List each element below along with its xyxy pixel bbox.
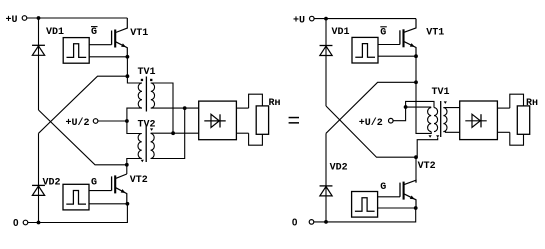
wire 0 bottom rail (left) [28, 204, 128, 223]
polarity mark secondary (right) [444, 101, 447, 104]
transformer TV1 label (right) [432, 87, 450, 98]
transformer TV1 core (left) [145, 77, 147, 112]
transistor VT1 (right) [400, 19, 444, 57]
junction VT1 emitter (right) [414, 54, 418, 58]
transformer TV1 secondary winding (left) [151, 83, 155, 108]
junction TV2 bottom / VT2 collector (left) [125, 163, 129, 167]
wire +U/2 lead (left) [98, 120, 127, 122]
wire G2 emitter lead (right) [378, 207, 416, 209]
wire +U/2 to TV2 primary top (left) [127, 121, 142, 134]
node +U/2 (right) terminal [359, 117, 393, 129]
junction +U/2 / TV1 / TV2 (left) [125, 119, 129, 123]
rectifier bridge U2 (right) [460, 101, 498, 140]
node 0 (left) terminal [13, 218, 28, 229]
wire secondary tops / rectifier lower input (left) [151, 132, 199, 134]
junction 0/VD2 (right) [324, 220, 328, 224]
wire +U/2 lead (right) [393, 107, 406, 121]
svg-text:+U/2: +U/2 [359, 117, 383, 129]
svg-text:+U: +U [293, 16, 305, 27]
node +U/2 (left) terminal [66, 117, 98, 129]
wire TV1 secondary top to TV2 secondary top (left) [151, 83, 173, 133]
junction +U/VD1 (left) [37, 16, 41, 20]
svg-text:0: 0 [13, 218, 19, 229]
transistor VT2 (left) [112, 174, 148, 204]
wire G1 gate lead (left) [89, 44, 111, 46]
svg-text:TV1: TV1 [138, 67, 156, 78]
svg-text:VT1: VT1 [426, 28, 444, 39]
wire secondary top to rectifier (right) [443, 107, 459, 109]
wire VT2 collector (right) [415, 157, 417, 182]
diode VD2 (left) [32, 178, 60, 196]
wire rectifier lower output (left) [236, 132, 248, 134]
node +U (left) terminal [6, 15, 27, 26]
diode VD1 (right) [320, 27, 350, 55]
svg-text:VD1: VD1 [332, 27, 350, 38]
svg-text:VD1: VD1 [46, 27, 64, 38]
wire rectifier lower output (right) [497, 131, 509, 133]
transformer TV1 secondary winding (right) [443, 108, 447, 132]
svg-text:+U/2: +U/2 [66, 117, 90, 129]
wire diagonal VD1 to VT2 collector node (right) [326, 106, 416, 157]
pulse generator G2 (right bottom) [352, 182, 387, 217]
svg-text:VT2: VT2 [130, 175, 148, 186]
wire VD1 branch (right) [325, 19, 327, 106]
transistor VT1 (left) [112, 18, 149, 57]
node +U (right) terminal [293, 16, 314, 27]
junction secondary tops (left) [171, 131, 175, 135]
junction secondary bottoms (left) [183, 106, 187, 110]
wire diagonal VD1 to TV2 bottom node (left) [39, 110, 127, 165]
junction +U/2 primaries (right) [404, 105, 408, 109]
svg-text:Rн: Rн [269, 98, 281, 109]
svg-text:+U: +U [6, 15, 18, 26]
wire +U/2 to primary 1 top (right) [406, 106, 432, 108]
polarity mark primary 1 (right) [429, 135, 432, 138]
wire VT1 emitter rail down (right) [416, 56, 431, 133]
wire primary 2 bottom to VT2 collector (right) [417, 138, 438, 158]
transformer TV1 primary winding (left) [138, 83, 142, 108]
wire VD1 branch (left) [38, 18, 40, 110]
wire VD2 branch (right) [325, 133, 327, 222]
resistor RH load (right) [510, 94, 538, 145]
transformer TV1 core (right) [440, 101, 442, 137]
junction diagonal/rail (right) [414, 80, 418, 84]
junction VT2 emitter (right) [414, 206, 418, 210]
wire secondary bottom to rectifier (right) [443, 131, 459, 134]
wire rectifier upper output (left) [236, 107, 248, 109]
svg-text:VT1: VT1 [130, 28, 148, 39]
wire TV2 secondary bottom to junction (left) [151, 108, 185, 158]
transformer TV1 primary winding 2 (right) [434, 108, 438, 132]
wire TV2 primary bottom lead (left) [127, 159, 142, 165]
polarity mark TV2 primary bottom (left) [141, 160, 144, 163]
polarity mark primary 2 (right) [436, 135, 439, 138]
svg-text:G: G [91, 27, 97, 38]
wire +U/2 over rail to primary 2 top (right) [406, 101, 434, 107]
pulse generator G1 (right top) [352, 27, 387, 63]
rectifier bridge U1 (left) [199, 101, 237, 140]
resistor RH load (left) [249, 94, 281, 145]
wire +U top rail (left) [27, 17, 128, 19]
wire G2 emitter lead (left) [89, 203, 127, 205]
transformer TV2 core (left) [145, 126, 147, 162]
svg-text:G: G [380, 182, 386, 193]
junction TV1 / VT2 collector (right) [414, 155, 418, 159]
wire G1 emitter lead (right) [378, 55, 416, 57]
diode VD1 (left) [32, 27, 64, 55]
wire VD2 branch (left) [38, 133, 40, 222]
junction VT2 emitter (left) [126, 202, 130, 206]
transformer TV1 label (left) [138, 67, 156, 78]
wire 0 bottom rail (right) [314, 208, 416, 222]
transistor VT2 (right) [400, 161, 436, 208]
svg-text:Rн: Rн [526, 98, 538, 109]
transformer TV2 primary winding (left) [138, 134, 142, 159]
wire G2 gate lead (left) [89, 190, 112, 192]
svg-text:G: G [380, 27, 386, 38]
diode VD2 (right) [320, 163, 348, 196]
pulse generator G1 (left top) [63, 27, 97, 64]
equivalence sign = [289, 117, 299, 124]
polarity mark TV1 primary (left) [141, 79, 143, 81]
polarity mark TV2 secondary top (left) [150, 128, 153, 131]
node 0 (right) terminal [292, 218, 314, 229]
wire rectifier upper output (right) [497, 107, 509, 109]
junction 0/VD2 (left) [37, 221, 41, 225]
junction diagonal/rail (left) [126, 74, 130, 78]
transformer TV1 primary winding 1 (right) [428, 108, 432, 132]
svg-text:G: G [91, 177, 97, 188]
transformer TV2 label (left) [138, 120, 156, 131]
svg-text:VD2: VD2 [330, 163, 348, 174]
wire diagonal VD2 to VT1 emitter node (right) [326, 82, 416, 133]
wire TV1 secondary bottom / rectifier upper input (left) [151, 107, 199, 109]
wire G2 gate lead (right) [378, 196, 400, 198]
svg-text:0: 0 [292, 218, 298, 229]
polarity mark TV1 secondary (left) [150, 79, 152, 81]
wire +U top rail (right) [314, 18, 416, 20]
wire VT1 emitter to TV1 (left) [127, 57, 142, 83]
wire VT2 collector (left) [126, 165, 128, 174]
pulse generator G2 (left bottom) [63, 177, 97, 210]
svg-text:TV1: TV1 [432, 87, 450, 98]
junction +U/VD1 (right) [324, 17, 328, 21]
junction VT1 emitter (left) [126, 55, 130, 59]
wire diagonal VD2 to VT1 emitter node (left) [39, 76, 128, 133]
transformer TV2 secondary winding (left) [151, 134, 155, 159]
svg-text:VT2: VT2 [418, 161, 436, 172]
wire TV1 primary bottom to +U/2 (left) [127, 108, 142, 121]
wire G1 gate lead (right) [378, 44, 400, 46]
wire G1 emitter lead (left) [89, 56, 127, 58]
svg-text:VD2: VD2 [43, 178, 61, 189]
